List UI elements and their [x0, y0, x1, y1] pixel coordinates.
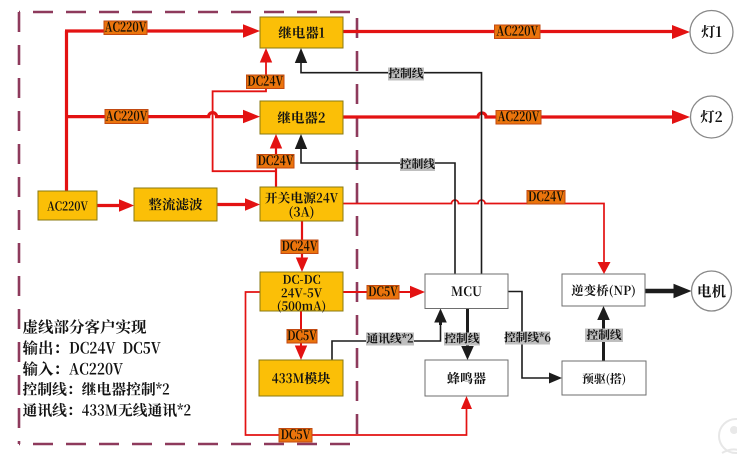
label control line relay2: [400, 158, 435, 171]
label DC24V relay1 feed: [247, 75, 285, 89]
wire inverter bridge to motor: [645, 284, 692, 298]
wire AC220V bus vertical: [65, 31, 68, 191]
label DC5V to MCU: [367, 286, 399, 300]
label DC24V to inverter: [527, 191, 565, 205]
wire control MCU to pre-driver: [508, 292, 562, 384]
label DC5V to buzzer: [279, 429, 312, 443]
wire DC5V DC-DC to 433M module: [295, 311, 307, 360]
wire control pre-driver to inverter bridge: [597, 306, 610, 361]
wire DC24V supply to inverter bridge: [343, 200, 611, 274]
block inverter bridge 逆变桥(NP): [562, 274, 645, 306]
wire DC24V supply to relay2: [270, 134, 282, 187]
label DC24V relay2 feed: [257, 155, 294, 169]
wire DC5V DC-DC to MCU: [343, 286, 425, 298]
wire control MCU to relay1: [295, 48, 482, 274]
label comm line *2: [366, 333, 414, 346]
label control line buzzer: [444, 333, 480, 346]
label AC220V relay1 to lamp1: [495, 25, 541, 39]
block DC-DC converter: [260, 272, 343, 313]
legend text block: [23, 319, 191, 417]
label control line *6: [504, 332, 550, 345]
block AC220V input: [38, 191, 97, 220]
wire DC24V supply to DC-DC: [296, 221, 308, 272]
terminal lamp1 灯1: [690, 11, 733, 54]
block rectifier 整流滤波: [134, 188, 217, 221]
label DC24V to DC-DC: [281, 240, 318, 254]
wire DC24V branch to relay1: [213, 48, 276, 171]
block buzzer 蜂鸣器: [425, 360, 508, 396]
wire AC220V to relay2 (hop over DC24V stem): [65, 110, 260, 124]
label AC220V on relay2 feed: [105, 110, 148, 124]
wire AC220V to relay1: [65, 24, 260, 38]
terminal motor 电机: [692, 271, 732, 311]
wire AC220V box to rectifier: [97, 199, 134, 212]
terminal lamp2 灯2: [691, 96, 733, 138]
label AC220V on relay1 feed: [104, 21, 147, 35]
label AC220V relay2 to lamp2: [496, 111, 541, 125]
faint watermark bottom right: [719, 419, 737, 453]
block relay2 继电器2: [260, 101, 343, 134]
wire control MCU to relay2: [295, 134, 455, 274]
label control line pre-driver: [585, 329, 623, 343]
wire AC220V relay1 to lamp1: [343, 25, 690, 39]
block relay1 继电器1: [260, 17, 343, 48]
wire AC220V relay2 to lamp2: [343, 110, 690, 124]
wire comm 433M to MCU: [332, 309, 447, 361]
wire DC5V loop DC-DC to buzzer: [246, 292, 473, 435]
block MCU: [425, 274, 508, 309]
dashed client boundary box: [19, 12, 357, 444]
block pre-driver 预驱(搭): [562, 361, 646, 395]
wire rectifier to switching supply: [217, 198, 260, 211]
label control line relay1: [388, 68, 424, 81]
block 433M module: [259, 360, 343, 396]
label DC5V to 433M: [287, 330, 317, 344]
wire control MCU to buzzer: [461, 309, 474, 361]
block switching supply 开关电源24V(3A): [260, 187, 343, 221]
